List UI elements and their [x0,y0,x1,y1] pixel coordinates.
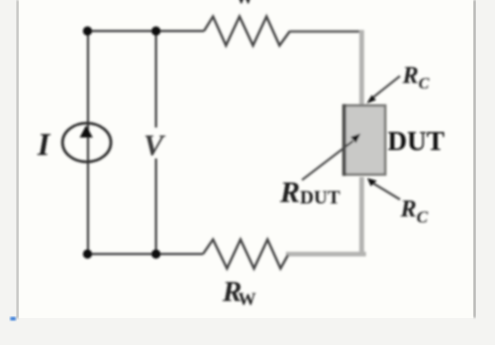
svg-text:I: I [37,127,52,162]
node bottom-middle [151,249,160,258]
wire middle vertical lower [155,159,157,255]
wire right vertical upper (gray) [359,30,364,105]
arrow RC top [373,76,400,98]
wire top horizontal left [88,30,204,32]
wire middle vertical upper [155,31,157,128]
wire bottom horizontal right (gray) [286,252,366,257]
svg-text:DUT: DUT [388,126,445,156]
wire bottom horizontal left [88,253,203,255]
svg-text:W: W [238,289,256,309]
DUT box [344,106,386,175]
wire right vertical lower (gray) [359,177,364,255]
arrow RC bottom [374,184,401,200]
resistor RW bottom [203,240,288,269]
wire top horizontal right [290,30,364,32]
wire left vertical [87,31,89,254]
arrow RDUT [302,141,353,180]
DUT box left edge darker [342,104,346,176]
current source I circle [62,123,110,162]
current source arrow [80,126,93,138]
resistor RW top [204,17,290,46]
node top-middle [151,26,160,35]
svg-text:V: V [144,129,167,162]
node bottom-left [83,249,92,258]
node top-left [83,26,92,35]
svg-text:W: W [236,0,254,8]
